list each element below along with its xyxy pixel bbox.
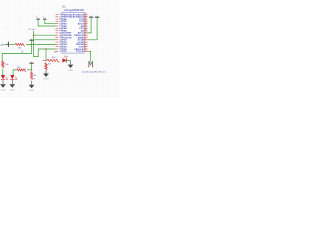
wire R2 to junction node bbox=[27, 69, 32, 71]
wire C1 to XTAL1 pin bbox=[38, 20, 55, 26]
svg-text:www.theoryCIRCUIT.com: www.theoryCIRCUIT.com bbox=[82, 71, 106, 74]
wire D3 to ground bbox=[67, 59, 71, 61]
crystal label X1 bbox=[28, 29, 35, 31]
wire C2 to XTAL2 pin bbox=[45, 20, 56, 24]
svg-text:a1: a1 bbox=[24, 69, 26, 71]
wire VCC1 stem down to junction bbox=[31, 40, 33, 44]
wire VCC1 bar to pin PD2 bbox=[34, 39, 56, 41]
junction node VCC net bbox=[31, 44, 32, 45]
power bar AVCC bbox=[95, 16, 99, 18]
resistor R1 bbox=[2, 60, 9, 68]
svg-text:11: 11 bbox=[59, 51, 61, 53]
wire R4 to pin PC6 bbox=[26, 43, 56, 45]
svg-text:10k: 10k bbox=[5, 64, 8, 66]
wire to pin PD0 bbox=[34, 34, 56, 36]
ground under R3 bbox=[29, 81, 35, 92]
svg-text:GND: GND bbox=[1, 90, 6, 92]
svg-text:22p: 22p bbox=[42, 16, 45, 18]
IC U1 ATmega48/88/168 body bbox=[62, 4, 84, 53]
wire R1 to LED D1 bbox=[2, 69, 4, 75]
wire AVCC to AVCC pin bbox=[88, 17, 98, 40]
LED D3 (points right) bbox=[62, 55, 67, 62]
svg-text:4k7: 4k7 bbox=[48, 64, 51, 66]
svg-text:GND: GND bbox=[29, 90, 34, 92]
IC U1 pin rows: stubs, pin numbers, pin names bbox=[56, 13, 88, 53]
wire osc net routed down and around to pin PD6 bbox=[34, 31, 56, 57]
svg-text:osc: osc bbox=[32, 29, 35, 31]
schematic grid background bbox=[0, 0, 120, 97]
power bar VCC1 bbox=[29, 39, 33, 41]
capacitor C1 bbox=[35, 16, 40, 19]
battery BT1 terminal bbox=[0, 42, 8, 47]
svg-text:GND: GND bbox=[44, 79, 49, 81]
wire R6 to ground bbox=[45, 71, 47, 73]
wire battery to R4 bbox=[9, 43, 15, 45]
resistor R5 bbox=[47, 57, 59, 63]
wire pin to sounder LS1 bbox=[88, 51, 91, 62]
svg-text:22p: 22p bbox=[35, 16, 38, 18]
resistor R4 bbox=[15, 43, 25, 49]
wire pin PD6 down to junction bbox=[45, 49, 47, 60]
svg-text:1k: 1k bbox=[33, 79, 35, 81]
junction node at R5 bbox=[45, 60, 46, 61]
svg-text:12: 12 bbox=[85, 50, 87, 52]
svg-text:U1: U1 bbox=[62, 4, 66, 8]
ground under D1 bbox=[0, 80, 6, 91]
svg-text:D1: D1 bbox=[54, 51, 56, 53]
svg-text:GND: GND bbox=[68, 70, 73, 72]
resistor R2 bbox=[16, 67, 26, 72]
wire junction down to left rail bbox=[2, 44, 31, 60]
sounder LS1 bbox=[88, 61, 94, 67]
resistor R6 (below junction) bbox=[45, 63, 51, 71]
wire VCC3 to VCC pin bbox=[88, 17, 92, 33]
resistor R3 bbox=[31, 71, 37, 80]
wire VCC2 down to junction bbox=[31, 63, 33, 70]
svg-text:T1/XCK: T1/XCK bbox=[76, 51, 84, 53]
svg-text:CAD: CAD bbox=[0, 44, 5, 47]
svg-text:ATmega48/88/168: ATmega48/88/168 bbox=[63, 8, 84, 12]
junction node on pin wire bbox=[45, 48, 46, 49]
wire D2 up to R2 bbox=[13, 70, 16, 75]
power bar VCC3 bbox=[89, 16, 93, 18]
capacitor C2 bbox=[42, 16, 46, 19]
wire stub left of junction bbox=[43, 59, 46, 61]
svg-text:R3: R3 bbox=[34, 75, 36, 77]
power bar VCC2 bbox=[29, 62, 33, 64]
LED D2 bbox=[10, 75, 17, 80]
LED D1 bbox=[1, 75, 8, 80]
ground under D2 bbox=[9, 80, 15, 91]
ground right of D3 bbox=[68, 60, 74, 71]
svg-text:GND: GND bbox=[10, 90, 15, 92]
junction node a1 bbox=[31, 69, 32, 70]
ground under R6 bbox=[43, 70, 49, 81]
